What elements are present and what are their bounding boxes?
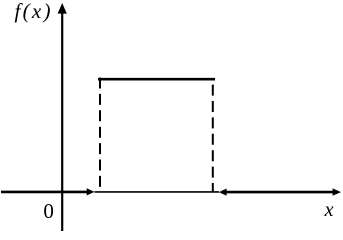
- y-axis: [61, 12, 63, 231]
- svg-text:0: 0: [43, 199, 54, 223]
- x-axis middle thin segment: [95, 191, 220, 193]
- left dashed line: [99, 78, 101, 190]
- y-axis arrowhead: [58, 3, 67, 14]
- arrowhead left-pointing at x=219: [219, 189, 227, 196]
- x-axis right thick segment: [226, 191, 333, 194]
- svg-text:f(x): f(x): [15, 0, 53, 23]
- right dashed line: [212, 85, 214, 192]
- x-axis left thick segment: [1, 191, 88, 194]
- x-axis arrowhead right end: [333, 188, 341, 195]
- svg-text:x: x: [324, 199, 334, 221]
- pulse top line: [98, 78, 215, 81]
- arrowhead right-pointing at x=94: [87, 188, 95, 195]
